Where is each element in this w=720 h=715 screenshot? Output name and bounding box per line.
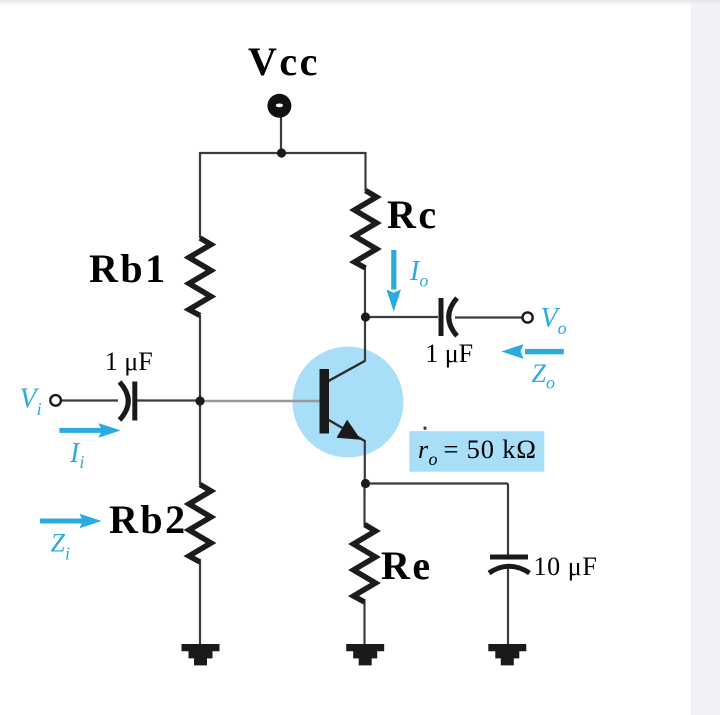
- svg-text:Rb1: Rb1: [89, 246, 168, 291]
- svg-text:10 μF: 10 μF: [534, 552, 598, 581]
- svg-text:1 μF: 1 μF: [425, 339, 473, 368]
- svg-text:Vcc: Vcc: [248, 39, 320, 84]
- svg-text:Rc: Rc: [387, 192, 439, 237]
- svg-text:1 μF: 1 μF: [105, 347, 153, 376]
- svg-text:Rb2: Rb2: [109, 497, 188, 542]
- svg-text:Re: Re: [381, 543, 433, 588]
